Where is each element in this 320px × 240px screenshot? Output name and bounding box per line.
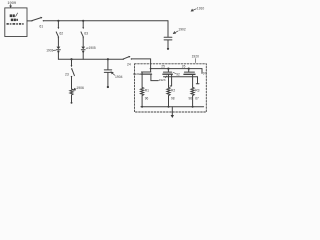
svg-text:96: 96 bbox=[145, 96, 149, 100]
svg-text:1923: 1923 bbox=[159, 78, 166, 82]
label 1921 bbox=[133, 72, 140, 76]
LED 1903 bbox=[57, 47, 61, 50]
power/rectifier block 1909 bbox=[5, 8, 27, 37]
capacitor C1902 bbox=[164, 37, 172, 40]
resistor R1906 bbox=[70, 89, 73, 95]
svg-text:98: 98 bbox=[171, 96, 175, 100]
label 1923 bbox=[159, 78, 166, 82]
label 1910 bbox=[197, 7, 205, 11]
resistor R2 bbox=[167, 87, 170, 95]
branch 1: feed arrow bbox=[57, 21, 59, 28]
svg-text:61: 61 bbox=[39, 24, 43, 28]
switch 23 bbox=[71, 68, 72, 69]
svg-text:1910: 1910 bbox=[197, 7, 205, 11]
gate rail drop right bbox=[196, 77, 199, 84]
svg-text:1904: 1904 bbox=[115, 75, 123, 79]
label 1903 bbox=[46, 48, 53, 52]
label 1906 bbox=[76, 86, 84, 90]
label 1902 bbox=[178, 28, 186, 32]
node to lower branch bbox=[70, 58, 72, 60]
label 61 bbox=[39, 24, 43, 28]
svg-text:R2: R2 bbox=[171, 88, 175, 92]
label 1905 bbox=[89, 46, 96, 50]
svg-text:1906: 1906 bbox=[76, 86, 84, 90]
label 1904 bbox=[115, 75, 123, 79]
label 1909 bbox=[7, 0, 16, 5]
label 97 bbox=[203, 71, 207, 75]
block text line 1 bbox=[10, 14, 15, 17]
label 96 bbox=[145, 96, 149, 100]
svg-text:1903: 1903 bbox=[46, 48, 53, 52]
label 1920 bbox=[192, 55, 200, 59]
top wire bbox=[44, 20, 168, 22]
node dot branch 2 bbox=[82, 20, 84, 22]
lower branch: feed arrow bbox=[71, 59, 73, 65]
capacitor 1904 bbox=[107, 59, 109, 69]
svg-text:25: 25 bbox=[161, 65, 165, 69]
block text line 2 bbox=[11, 19, 18, 22]
right corner stub bbox=[201, 69, 203, 74]
node dot T3 bbox=[188, 68, 190, 70]
label 98 bbox=[171, 96, 175, 100]
terminal dot below 1902 bbox=[167, 48, 169, 50]
svg-text:23: 23 bbox=[65, 73, 69, 77]
switch 63 bbox=[81, 32, 83, 37]
svg-text:97: 97 bbox=[203, 71, 207, 75]
regulator dashed box 1920 bbox=[135, 64, 207, 112]
svg-text:1905: 1905 bbox=[89, 46, 96, 50]
svg-text:24: 24 bbox=[127, 62, 131, 66]
gate drop T2 bbox=[170, 74, 172, 86]
wire to LED 1905 bbox=[82, 38, 84, 46]
resistor R1 bbox=[141, 87, 144, 95]
block text line 3 bbox=[7, 23, 24, 25]
wire to LED 1903 bbox=[57, 38, 59, 46]
branch 2: feed arrow bbox=[82, 21, 84, 28]
junction dots on bottom rail bbox=[141, 106, 143, 108]
label 25 bbox=[161, 65, 165, 69]
wire to resistor 1906 bbox=[71, 77, 73, 89]
label 96 left bbox=[189, 96, 193, 100]
leader arrow for 1909 bbox=[10, 4, 12, 7]
node to capacitor 1904 bbox=[107, 58, 109, 60]
node dot T2 bbox=[167, 68, 169, 70]
svg-text:1920: 1920 bbox=[192, 55, 200, 59]
terminal dot below 1904 bbox=[107, 86, 109, 88]
svg-text:R3: R3 bbox=[195, 88, 199, 92]
leader arrow for 1910 bbox=[191, 9, 196, 11]
LED 1905 bbox=[81, 47, 85, 50]
leader arrow for 1902 bbox=[173, 31, 178, 34]
junction dot at corner bbox=[150, 68, 152, 70]
svg-text:1902: 1902 bbox=[178, 28, 186, 32]
box interior top rail bbox=[151, 68, 202, 70]
switch 24 bbox=[123, 58, 124, 59]
gate link wire T1 bbox=[151, 74, 158, 80]
svg-text:96: 96 bbox=[189, 96, 193, 100]
wire from block to switch 61 bbox=[27, 20, 32, 22]
resistor R3 bbox=[191, 87, 194, 95]
bottom bus wire bbox=[58, 58, 123, 60]
svg-text:1909: 1909 bbox=[7, 0, 16, 5]
label 92 bbox=[176, 72, 180, 76]
ground lead with arrow bbox=[171, 107, 173, 116]
label 67 bbox=[195, 96, 199, 100]
wire into regulator box bbox=[132, 59, 151, 69]
terminal dot 1906 branch bbox=[71, 102, 73, 104]
switch 62 bbox=[56, 32, 58, 37]
gate rail wire bbox=[164, 76, 198, 78]
box interior bottom rail bbox=[141, 106, 204, 108]
svg-text:67: 67 bbox=[195, 96, 199, 100]
label 26 bbox=[182, 65, 186, 69]
switch 61 bbox=[31, 20, 32, 21]
svg-text:62: 62 bbox=[59, 32, 63, 36]
node dot branch 1 bbox=[57, 20, 59, 22]
transistor 1921 bbox=[150, 69, 152, 72]
transistor 1923 bbox=[167, 69, 169, 72]
svg-text:63: 63 bbox=[84, 32, 88, 36]
svg-text:92: 92 bbox=[176, 72, 180, 76]
svg-text:26: 26 bbox=[182, 65, 186, 69]
svg-text:R1: R1 bbox=[145, 88, 149, 92]
wire corner down to capacitor 1902 bbox=[167, 21, 169, 37]
transistor 1924 bbox=[188, 69, 190, 72]
